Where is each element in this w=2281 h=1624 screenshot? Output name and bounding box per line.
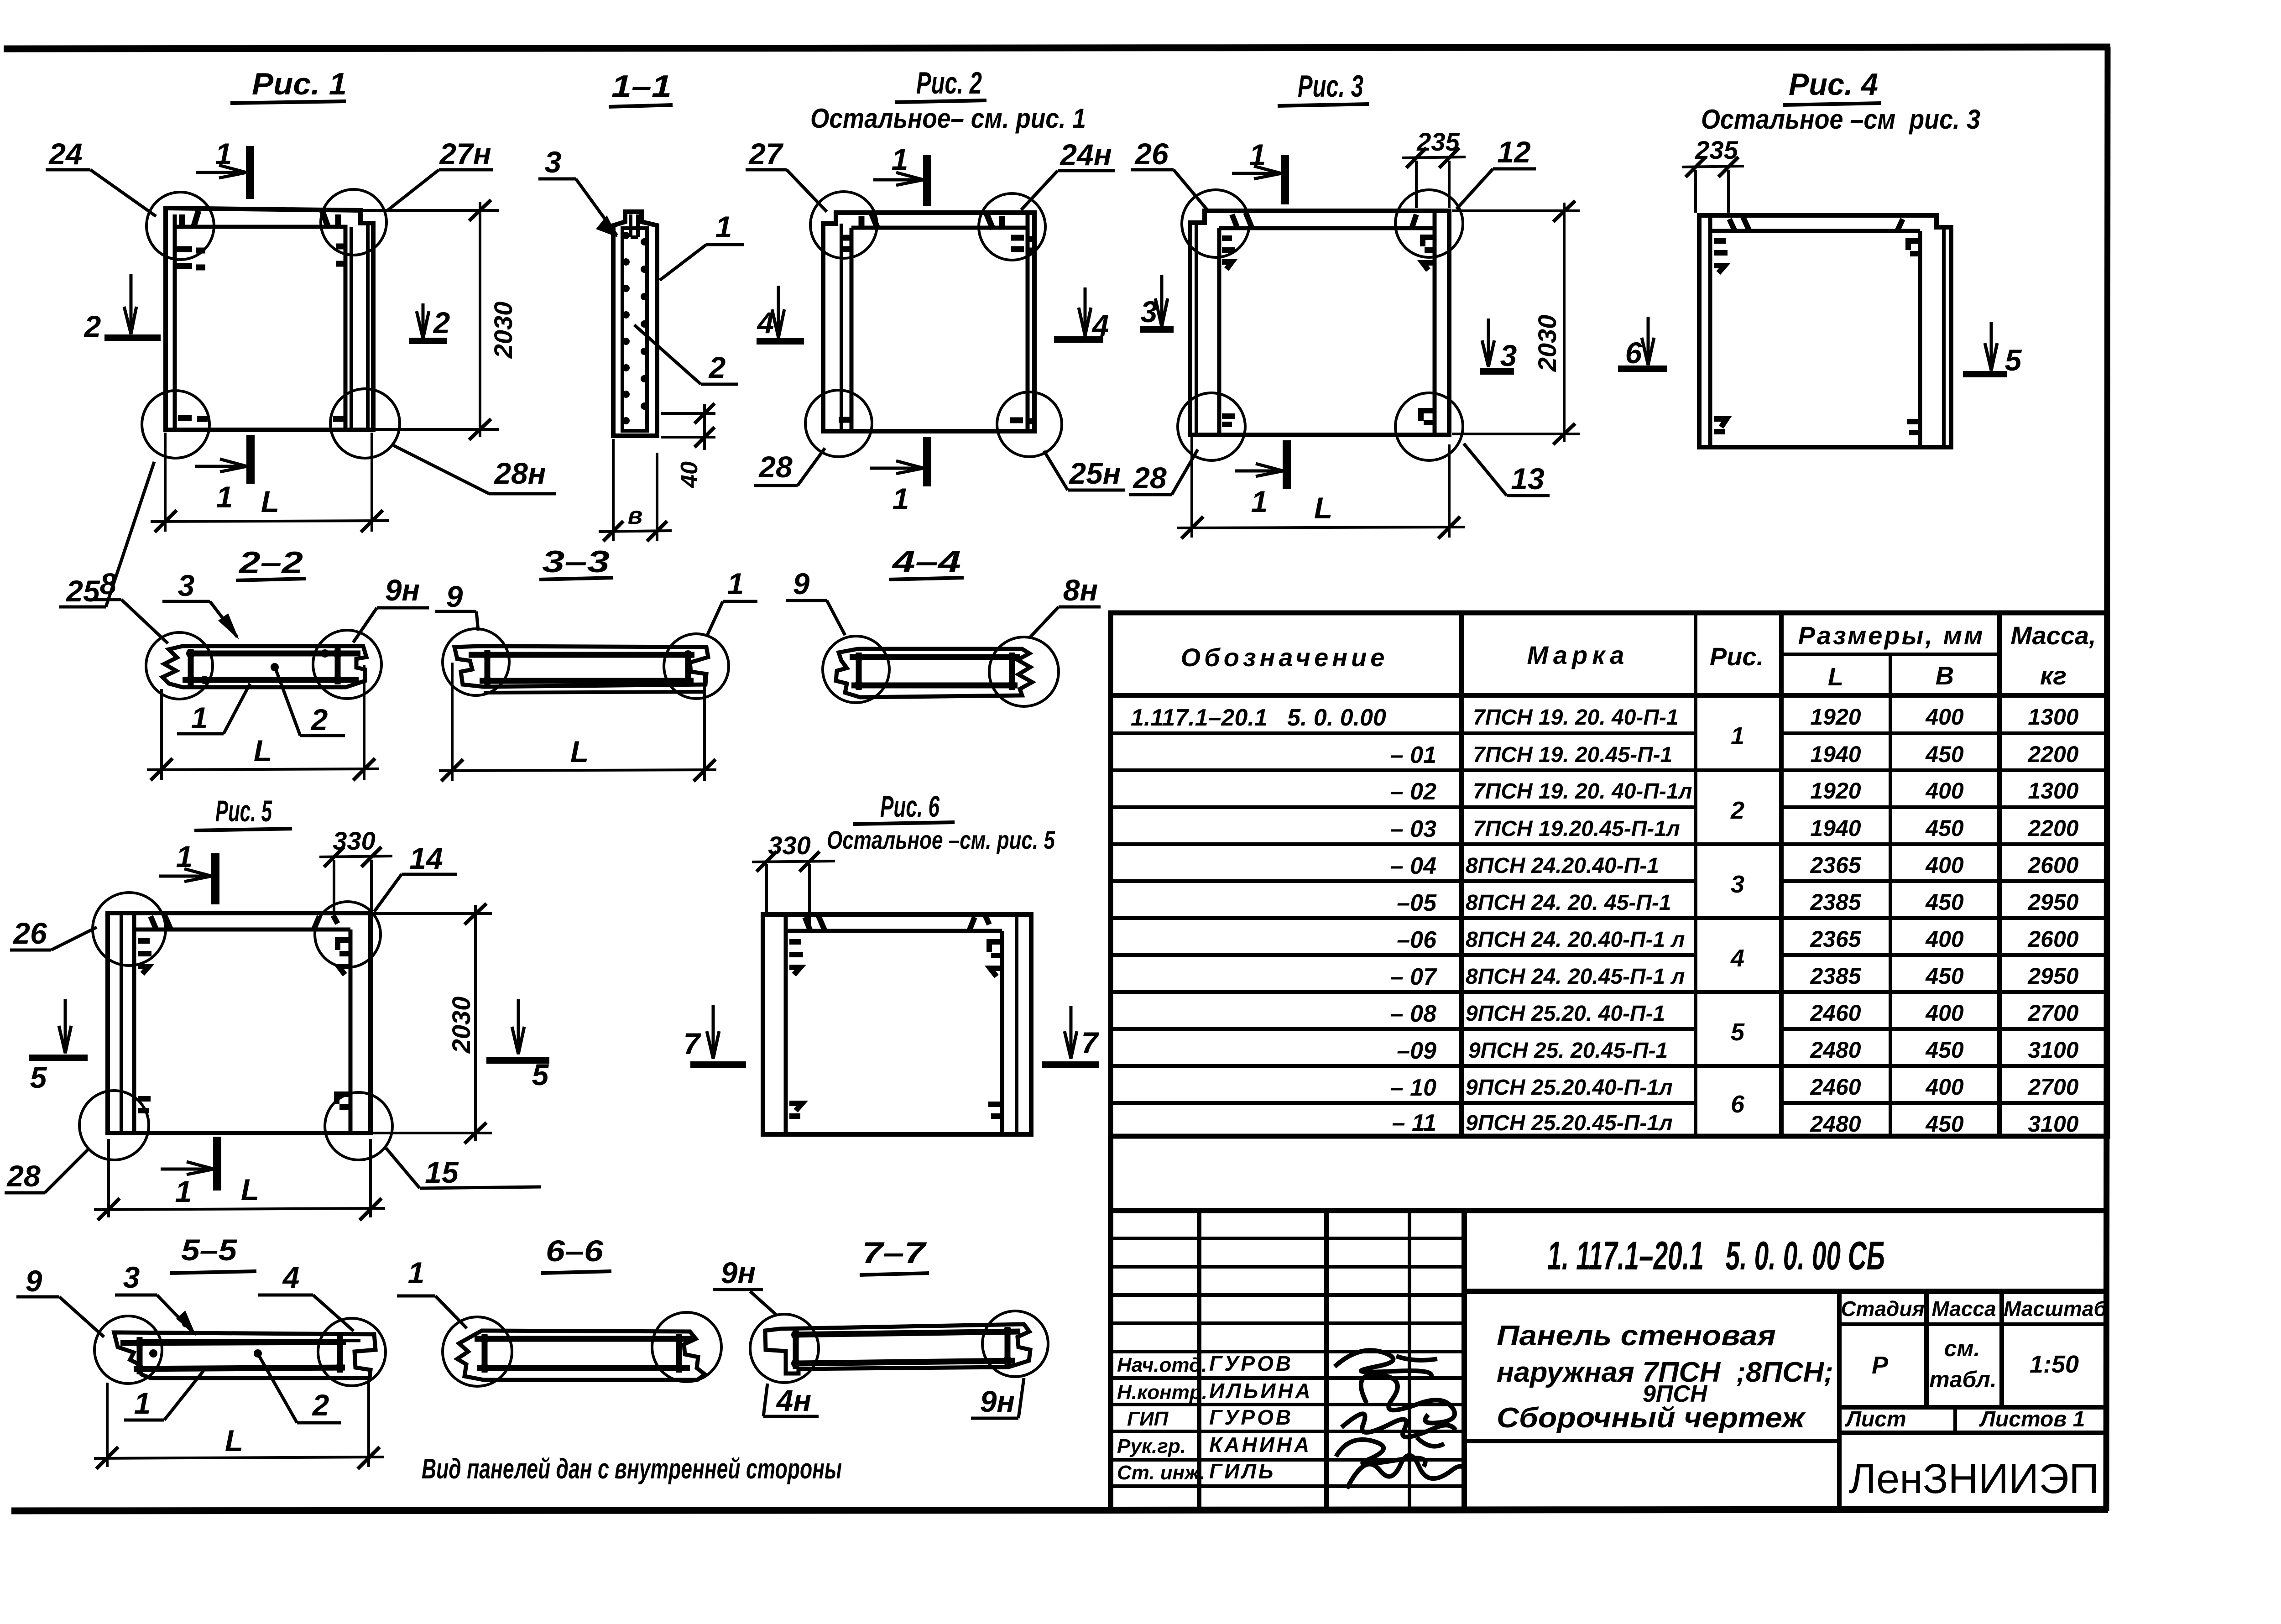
fig2 panel outline — [823, 213, 1034, 431]
sec3-3 title underline — [539, 578, 613, 580]
sec1-1 top anchor — [631, 214, 638, 237]
svg-text:400: 400 — [1925, 852, 1964, 878]
svg-text:27н: 27н — [438, 137, 491, 171]
svg-text:1: 1 — [1251, 485, 1268, 518]
svg-text:8ПСН 24.20.40-П-1: 8ПСН 24.20.40-П-1 — [1466, 854, 1659, 878]
svg-text:3: 3 — [1731, 871, 1744, 898]
svg-text:2600: 2600 — [2027, 852, 2078, 878]
fig5 left strip line — [120, 913, 123, 1133]
svg-text:кг: кг — [2040, 661, 2067, 690]
sec6-6 detail circle right — [652, 1312, 721, 1382]
svg-text:ГУРОВ: ГУРОВ — [1209, 1405, 1293, 1429]
fig1 detail circle top-right — [321, 189, 386, 255]
fig3 panel inner contour — [1219, 212, 1435, 434]
svg-text:– 10: – 10 — [1390, 1075, 1436, 1101]
svg-text:2460: 2460 — [1810, 1074, 1861, 1100]
svg-text:Лист: Лист — [1845, 1407, 1906, 1431]
svg-text:L: L — [225, 1424, 243, 1457]
svg-text:24: 24 — [48, 137, 82, 171]
fig4 panel outline — [1699, 215, 1951, 447]
sec2-2 rebar top — [189, 651, 360, 657]
sec5-5 anchor right — [337, 1336, 343, 1373]
svg-text:1:50: 1:50 — [2030, 1351, 2079, 1378]
table header bottom line — [1111, 693, 2108, 698]
fig2 section mark 1 bottom — [870, 437, 927, 486]
svg-text:2: 2 — [708, 350, 726, 384]
fig2 detail circle bottom-left — [805, 390, 872, 457]
svg-text:Рис. 5: Рис. 5 — [215, 794, 272, 828]
svg-text:Рук.гр.: Рук.гр. — [1117, 1435, 1186, 1457]
title block stage header underline — [1839, 1322, 2108, 1326]
sec3-3 rebar top — [469, 652, 694, 658]
sec6-6 anchor left — [482, 1334, 488, 1373]
svg-text:2030: 2030 — [489, 302, 517, 359]
title block left edge — [1108, 1136, 1113, 1509]
svg-text:ГИП: ГИП — [1127, 1408, 1169, 1430]
title block name box bottom — [1464, 1439, 1839, 1443]
svg-text:2480: 2480 — [1810, 1037, 1861, 1063]
svg-text:26: 26 — [1134, 137, 1169, 171]
fig3 panel outline — [1190, 211, 1449, 435]
sec2-2 anchor dots — [186, 649, 342, 684]
svg-text:8ПСН 24. 20.45-П-1 л: 8ПСН 24. 20.45-П-1 л — [1466, 965, 1685, 989]
sec1-1 outline — [613, 212, 657, 436]
svg-text:–09: –09 — [1397, 1038, 1436, 1064]
svg-text:1: 1 — [175, 1175, 192, 1208]
fig4 dimension 235 — [1682, 157, 1744, 213]
svg-text:9ПСН 25.20.40-П-1л: 9ПСН 25.20.40-П-1л — [1466, 1076, 1673, 1100]
fig3 detail circle top-left — [1182, 190, 1249, 257]
fig6 panel inner contour — [786, 915, 1002, 1133]
table outer box — [1111, 613, 2108, 1136]
fig5 title underline — [194, 829, 292, 830]
sec5-5 title underline — [170, 1271, 256, 1273]
sec4-4 outline — [836, 649, 1032, 697]
svg-text:1: 1 — [176, 840, 193, 873]
fig4 corner marks bottom-right — [1907, 422, 1920, 433]
svg-text:– 11: – 11 — [1392, 1110, 1436, 1136]
svg-text:450: 450 — [1925, 1037, 1964, 1063]
svg-text:2385: 2385 — [1810, 963, 1861, 989]
sec4-4 detail circle left — [823, 636, 889, 703]
title block list row bottom — [1839, 1431, 2108, 1435]
title block designation row bottom — [1464, 1289, 2108, 1294]
fig6 dimension 330 — [752, 851, 835, 931]
sec4-4 rebar bottom — [851, 683, 1018, 689]
table row line 2 (group) — [1111, 768, 2108, 772]
fig4 corner marks top-right — [1897, 219, 1920, 254]
svg-text:2–2: 2–2 — [238, 545, 303, 580]
svg-text:400: 400 — [1925, 926, 1964, 952]
svg-text:2: 2 — [312, 1388, 329, 1422]
table data: marka column — [1466, 705, 1692, 1135]
fig3 left strip line — [1195, 223, 1198, 434]
sec4-4 anchor dots — [854, 653, 1017, 690]
fig4 section mark 5 right — [1963, 322, 2007, 374]
svg-text:Размеры, мм: Размеры, мм — [1798, 621, 1985, 650]
svg-text:9ПСН 25.20. 40-П-1: 9ПСН 25.20. 40-П-1 — [1466, 1002, 1665, 1026]
svg-text:450: 450 — [1925, 1111, 1964, 1137]
svg-text:235: 235 — [1416, 127, 1460, 156]
fig1 corner rebar marks top-left — [177, 211, 205, 267]
svg-text:2365: 2365 — [1810, 852, 1861, 878]
svg-text:Нач.отд.: Нач.отд. — [1117, 1354, 1207, 1376]
fig4 panel inner contour — [1710, 216, 1920, 446]
svg-text:6: 6 — [1625, 336, 1643, 370]
svg-text:1: 1 — [191, 701, 208, 735]
sec4-4 rebar top — [850, 654, 1020, 660]
fig2 corner marks top-right — [987, 214, 1037, 251]
svg-text:6–6: 6–6 — [546, 1234, 604, 1268]
svg-text:2700: 2700 — [2027, 1074, 2078, 1100]
table data: mass column — [2027, 704, 2078, 1137]
fig4 title underline — [1783, 103, 1881, 105]
svg-text:– 03: – 03 — [1390, 816, 1436, 842]
fig2 detail circle top-right — [979, 193, 1045, 260]
svg-text:3: 3 — [123, 1260, 140, 1294]
object name text — [1497, 1320, 1833, 1434]
fig1 detail circle bottom-right — [330, 389, 400, 458]
svg-text:L: L — [570, 735, 589, 768]
sec5-5 detail circle left — [94, 1316, 162, 1384]
svg-text:1–1: 1–1 — [611, 69, 672, 104]
svg-text:3: 3 — [545, 145, 562, 179]
svg-text:7: 7 — [1081, 1026, 1100, 1060]
svg-text:12: 12 — [1497, 135, 1531, 169]
sec4-4 title underline — [889, 578, 964, 580]
svg-text:табл.: табл. — [1929, 1367, 1997, 1392]
table row line 5 — [1111, 879, 2108, 883]
svg-text:Рис. 6: Рис. 6 — [880, 789, 940, 823]
svg-text:9: 9 — [26, 1264, 42, 1298]
svg-text:Остальное –см рис. 3: Остальное –см рис. 3 — [1701, 104, 1980, 135]
fig1 section mark 2 left — [104, 274, 161, 338]
fig2 section mark 4 left — [757, 286, 804, 341]
fig5 detail circle bottom-right — [325, 1092, 392, 1160]
sec6-6 outline — [457, 1331, 705, 1380]
svg-text:КАНИНА: КАНИНА — [1209, 1433, 1311, 1457]
svg-text:28: 28 — [6, 1159, 41, 1193]
svg-text:Р: Р — [1872, 1352, 1889, 1379]
svg-text:4–4: 4–4 — [891, 544, 961, 579]
fig1 section mark 2 right — [409, 303, 447, 341]
svg-text:9н: 9н — [721, 1256, 756, 1290]
svg-text:1: 1 — [893, 482, 909, 516]
svg-text:7ПСН 19. 20.45-П-1: 7ПСН 19. 20.45-П-1 — [1473, 743, 1672, 767]
svg-text:9ПСН 25. 20.45-П-1: 9ПСН 25. 20.45-П-1 — [1468, 1039, 1668, 1063]
fig1 title underline — [230, 101, 346, 103]
sec1-1 dimension B — [599, 439, 672, 541]
fig5 section mark 1 bottom — [161, 1137, 217, 1191]
svg-text:4: 4 — [1730, 945, 1744, 972]
svg-text:25н: 25н — [1068, 456, 1121, 490]
stage grid headers — [1841, 1297, 2107, 1431]
sec2-2 rebar bottom — [183, 677, 359, 683]
svg-text:1: 1 — [892, 142, 908, 176]
svg-text:L: L — [241, 1173, 259, 1206]
svg-text:2: 2 — [84, 309, 101, 343]
table row line 11 — [1111, 1101, 2108, 1105]
svg-text:28: 28 — [1132, 461, 1167, 495]
svg-text:2480: 2480 — [1810, 1111, 1861, 1137]
svg-text:2460: 2460 — [1810, 1000, 1861, 1026]
svg-text:– 02: – 02 — [1390, 778, 1436, 805]
fig1 corner rebar marks bottom-right — [333, 416, 344, 422]
personnel column line 2 — [1324, 1211, 1329, 1509]
svg-text:Ст. инж.: Ст. инж. — [1117, 1462, 1205, 1484]
svg-text:2700: 2700 — [2027, 1000, 2078, 1026]
fig6 right strip line — [1015, 915, 1018, 1134]
svg-text:1300: 1300 — [2028, 778, 2078, 804]
table data: L column — [1810, 704, 1861, 1137]
title block stage grid vertical 2 — [1924, 1291, 1929, 1407]
sec6-6 title underline — [541, 1271, 611, 1273]
sec7-7 anchor right — [1005, 1327, 1011, 1365]
table sizes sub-line — [1781, 653, 1999, 656]
svg-text:– 01: – 01 — [1390, 742, 1436, 768]
svg-text:Н.контр.: Н.контр. — [1117, 1381, 1207, 1404]
svg-text:Рис. 3: Рис. 3 — [1298, 69, 1363, 104]
sec7-7 rebar top — [792, 1332, 1020, 1335]
svg-text:3–3: 3–3 — [542, 544, 610, 579]
personnel column line 3 — [1408, 1211, 1411, 1509]
svg-text:450: 450 — [1925, 889, 1964, 915]
sec2-2 anchor right — [335, 648, 341, 684]
fig1 detail circle top-left — [146, 192, 214, 260]
fig6 corner marks top-right — [969, 916, 1002, 976]
svg-text:1: 1 — [408, 1256, 425, 1290]
svg-text:330: 330 — [768, 831, 810, 860]
svg-text:1: 1 — [134, 1386, 151, 1420]
table row line 3 — [1111, 805, 2108, 809]
svg-text:Обозначение: Обозначение — [1181, 643, 1388, 672]
sec4-4 anchor right — [1009, 653, 1015, 690]
svg-text:7ПСН 19.20.45-П-1л: 7ПСН 19.20.45-П-1л — [1473, 817, 1680, 841]
fig3 dimension 235 — [1402, 148, 1466, 208]
sec3-3 outline — [454, 646, 708, 687]
svg-text:5: 5 — [1731, 1018, 1745, 1046]
personnel labels — [1117, 1354, 1207, 1484]
svg-text:2: 2 — [310, 703, 328, 736]
svg-text:2: 2 — [433, 306, 450, 339]
sec2-2 detail circle left — [146, 632, 213, 699]
svg-text:2365: 2365 — [1810, 926, 1861, 952]
table row line 1 — [1111, 731, 2108, 735]
sec2-2 title underline — [236, 579, 306, 580]
svg-text:2200: 2200 — [2027, 815, 2078, 841]
title block stage grid vertical 3 — [1999, 1291, 2004, 1407]
svg-text:– 08: – 08 — [1390, 1001, 1436, 1027]
svg-text:1. 117.1–20.1 5. 0. 0. 00 СБ: 1. 117.1–20.1 5. 0. 0. 00 СБ — [1547, 1233, 1885, 1278]
fig1 corner rebar marks top-right — [322, 211, 344, 264]
svg-text:450: 450 — [1925, 742, 1964, 767]
svg-text:7ПСН 19. 20. 40-П-1: 7ПСН 19. 20. 40-П-1 — [1473, 705, 1679, 730]
title block top line — [1111, 1208, 2108, 1213]
svg-text:1: 1 — [715, 210, 732, 244]
sec4-4 anchor left — [856, 653, 862, 690]
fig5 dimension L bottom — [94, 1139, 385, 1220]
svg-text:–06: –06 — [1397, 927, 1437, 953]
sec3-3 anchor left — [485, 650, 491, 685]
svg-text:1940: 1940 — [1810, 815, 1861, 841]
svg-text:1: 1 — [727, 567, 744, 601]
svg-text:5: 5 — [2005, 343, 2022, 377]
sec1-1 title underline — [609, 105, 673, 107]
sec1-1 inner rect — [622, 228, 647, 431]
sec2-2 anchor left — [188, 649, 194, 685]
fig3 detail circle bottom-left — [1178, 393, 1245, 460]
svg-text:1300: 1300 — [2028, 704, 2078, 730]
fig3 section mark 1 top — [1232, 155, 1285, 204]
fig6 section mark 7 right — [1042, 1006, 1099, 1065]
sec5-5 dimension L — [94, 1382, 384, 1469]
svg-text:400: 400 — [1925, 1074, 1964, 1100]
title block list divider — [1953, 1407, 1957, 1433]
svg-text:3: 3 — [178, 569, 195, 602]
svg-text:L: L — [1828, 662, 1843, 691]
svg-text:14: 14 — [409, 841, 443, 875]
sec6-6 rebar bottom — [477, 1365, 690, 1371]
sec5-5 inner top line — [137, 1339, 360, 1342]
table row line 7 — [1111, 953, 2108, 957]
fig2 title underline — [895, 100, 987, 102]
fig2 panel inner contour — [851, 214, 1028, 430]
table row line 10 (group) — [1111, 1064, 2108, 1068]
svg-text:2030: 2030 — [1533, 315, 1561, 372]
svg-text:7: 7 — [684, 1027, 702, 1060]
sec5-5 anchor dots — [135, 1337, 344, 1373]
personnel column line 1 — [1197, 1211, 1201, 1509]
sec6-6 rebar top — [475, 1336, 692, 1342]
fig1 corner rebar marks bottom-left — [178, 418, 208, 419]
svg-text:1: 1 — [215, 137, 232, 171]
svg-text:3: 3 — [1141, 295, 1158, 329]
svg-text:28н: 28н — [493, 456, 546, 490]
svg-text:– 04: – 04 — [1390, 853, 1436, 879]
svg-text:400: 400 — [1925, 778, 1964, 804]
sec5-5 rebar bottom — [134, 1368, 345, 1369]
svg-text:В: В — [1936, 661, 1954, 690]
fig2 detail circle top-left — [810, 192, 877, 258]
svg-text:400: 400 — [1925, 1000, 1964, 1026]
fig1 section mark 1 top — [196, 146, 250, 199]
svg-text:7ПСН 19. 20. 40-П-1л: 7ПСН 19. 20. 40-П-1л — [1473, 779, 1692, 804]
table row line 6 (group) — [1111, 916, 2108, 920]
svg-text:8: 8 — [100, 567, 117, 601]
svg-text:9: 9 — [446, 580, 463, 613]
svg-text:5–5: 5–5 — [181, 1233, 237, 1267]
sec7-7 detail circle left — [750, 1314, 819, 1383]
sec1-1 rebar dots left — [622, 232, 630, 424]
svg-text:Рис. 1: Рис. 1 — [252, 67, 347, 101]
fig5 detail circle top-right — [315, 902, 381, 967]
svg-text:24н: 24н — [1059, 138, 1112, 172]
svg-text:13: 13 — [1511, 462, 1544, 496]
fig5 corner marks bottom-left — [138, 1099, 151, 1111]
fig2 left strip line — [840, 224, 843, 430]
signature squiggles — [1335, 1350, 1466, 1488]
svg-text:–05: –05 — [1397, 890, 1437, 916]
svg-text:2030: 2030 — [447, 997, 475, 1054]
svg-text:330: 330 — [333, 826, 375, 855]
fig1 dimension L bottom — [151, 433, 389, 532]
svg-text:L: L — [261, 485, 279, 518]
svg-text:Панель стеновая: Панель стеновая — [1497, 1320, 1776, 1352]
svg-text:4: 4 — [282, 1260, 300, 1294]
svg-text:400: 400 — [1925, 704, 1964, 730]
frame top border — [4, 47, 2110, 49]
sec7-7 detail circle right — [982, 1311, 1048, 1377]
table column line marka/ris — [1694, 613, 1697, 1136]
fig3 detail circle bottom-right — [1395, 393, 1463, 460]
fig5 panel inner contour — [134, 914, 350, 1132]
table data: designation column — [1131, 705, 1437, 1136]
svg-text:3100: 3100 — [2028, 1111, 2078, 1137]
fig2 section mark 1 top — [873, 155, 927, 206]
sec1-1 rebar dots right — [641, 238, 648, 410]
fig1 panel inner contour — [175, 214, 345, 429]
fig3 dimension 2030 — [1452, 201, 1580, 444]
sec3-3 detail circle left — [443, 629, 509, 695]
sec4-4 detail circle right — [989, 637, 1059, 706]
svg-text:8ПСН 24. 20.40-П-1 л: 8ПСН 24. 20.40-П-1 л — [1466, 928, 1685, 952]
sec5-5 outline — [114, 1332, 376, 1378]
fig1 right strip lines — [351, 223, 368, 429]
fig3 section mark 3 left — [1140, 275, 1174, 329]
fig5 corner marks top-left — [138, 914, 171, 974]
fig1 dimension 2030 — [363, 200, 499, 440]
svg-text:5: 5 — [532, 1058, 549, 1091]
table column line L/B — [1889, 654, 1892, 1136]
svg-text:3: 3 — [1500, 339, 1517, 372]
fig3 dimension L bottom — [1177, 437, 1465, 538]
svg-text:26: 26 — [12, 916, 47, 950]
sec6-6 anchor dots — [480, 1334, 684, 1373]
frame right border — [2106, 47, 2108, 1511]
svg-text:15: 15 — [425, 1155, 459, 1189]
fig4 corner marks bottom-left — [1714, 419, 1727, 432]
svg-text:1: 1 — [1249, 138, 1266, 172]
svg-text:ИЛЬИНА: ИЛЬИНА — [1209, 1379, 1313, 1403]
personnel row lines — [1111, 1238, 1464, 1486]
table column line ris/L — [1779, 613, 1784, 1136]
fig1 detail circle bottom-left — [142, 391, 209, 458]
svg-text:2: 2 — [1730, 797, 1744, 824]
svg-text:40: 40 — [676, 461, 703, 488]
svg-text:1.117.1–20.1 5. 0. 0.00: 1.117.1–20.1 5. 0. 0.00 — [1131, 705, 1386, 731]
svg-text:Сборочный чертеж: Сборочный чертеж — [1497, 1402, 1806, 1434]
svg-text:2950: 2950 — [2027, 963, 2078, 989]
fig5 section mark 5 left — [29, 999, 88, 1058]
svg-text:1940: 1940 — [1810, 742, 1861, 767]
personnel names — [1209, 1352, 1313, 1483]
table column line B/massa — [1997, 613, 2002, 1136]
sec2-2 outline — [162, 646, 366, 687]
svg-text:Стадия: Стадия — [1841, 1297, 1924, 1321]
svg-text:2950: 2950 — [2027, 889, 2078, 915]
fig3 corner marks top-left — [1222, 213, 1252, 269]
svg-text:см.: см. — [1944, 1336, 1980, 1361]
svg-text:450: 450 — [1925, 815, 1964, 841]
svg-text:8ПСН 24. 20. 45-П-1: 8ПСН 24. 20. 45-П-1 — [1466, 891, 1671, 915]
fig4 corner marks top-left — [1714, 217, 1749, 273]
sec5-5 detail circle right — [318, 1318, 386, 1386]
table row line 9 — [1111, 1027, 2108, 1031]
svg-text:Листов 1: Листов 1 — [1979, 1407, 2085, 1431]
fig6 corner marks bottom-right — [988, 1104, 1002, 1116]
table row line 4 (group) — [1111, 842, 2108, 846]
svg-text:– 07: – 07 — [1390, 964, 1437, 990]
